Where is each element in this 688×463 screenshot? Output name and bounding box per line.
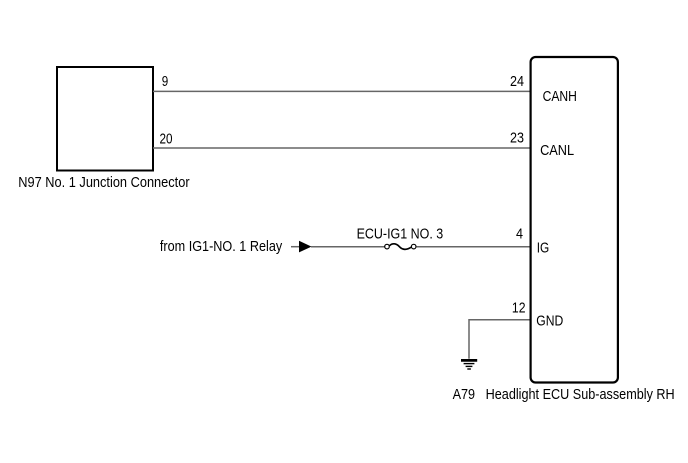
connector A79 (headlight ECU box): [531, 57, 618, 383]
svg-text:CANL: CANL: [540, 143, 574, 159]
wire CANL (N97 pin 20 to A79 pin 23): [153, 147, 531, 149]
wire IG stub (before arrow): [291, 246, 300, 248]
wire IG (fuse to A79 pin 4): [416, 246, 530, 248]
connector N97 (junction connector box): [57, 67, 153, 171]
wire CANH (N97 pin 9 to A79 pin 24): [153, 90, 531, 92]
svg-text:CANH: CANH: [543, 89, 577, 105]
svg-text:IG: IG: [537, 241, 550, 257]
svg-text:GND: GND: [536, 314, 563, 330]
svg-text:A79 Headlight ECU Sub-assemb: A79 Headlight ECU Sub-assembly RH: [453, 387, 675, 403]
fuse ECU-IG1 NO. 3: [385, 244, 416, 250]
svg-text:ECU-IG1 NO. 3: ECU-IG1 NO. 3: [357, 226, 444, 242]
wire GND (A79 pin 12 to ground): [469, 320, 531, 359]
svg-text:from IG1-NO. 1 Relay: from IG1-NO. 1 Relay: [160, 239, 283, 255]
wire IG (arrow to fuse): [311, 246, 385, 248]
arrow (feed from IG1-NO. 1 Relay): [299, 241, 312, 253]
svg-text:23: 23: [510, 131, 524, 147]
svg-text:N97 No. 1 Junction Connector: N97 No. 1 Junction Connector: [18, 175, 190, 191]
ground: [461, 360, 477, 369]
svg-text:4: 4: [516, 226, 523, 242]
svg-text:24: 24: [510, 74, 524, 90]
svg-text:20: 20: [160, 132, 173, 148]
svg-text:12: 12: [512, 301, 526, 317]
svg-text:9: 9: [162, 74, 169, 90]
